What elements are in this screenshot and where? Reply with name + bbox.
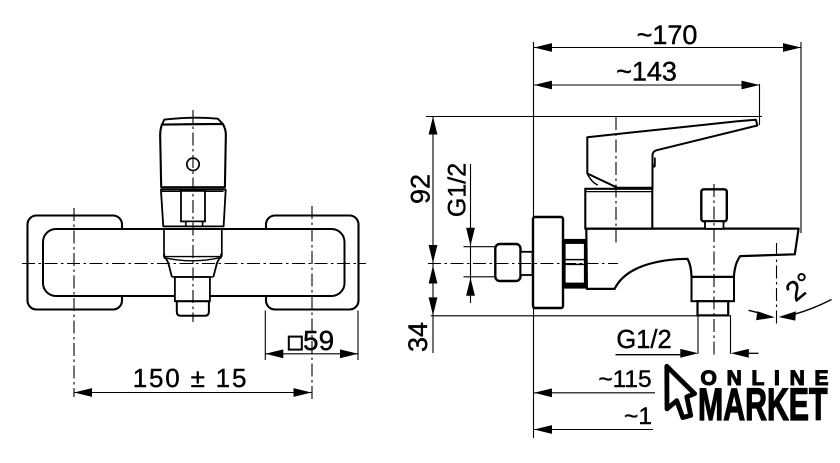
dimension extension □59 right bbox=[357, 311, 359, 361]
center line horizontal right view bbox=[428, 263, 618, 265]
svg-text:~1: ~1 bbox=[624, 403, 652, 430]
wall plate right bbox=[266, 216, 359, 310]
dimension ~170 bbox=[534, 47, 801, 49]
dimension ~115 bbox=[534, 392, 655, 394]
dimension 34 vertical bbox=[432, 264, 434, 354]
supply stub line bottom bbox=[464, 276, 496, 278]
svg-text:~170: ~170 bbox=[637, 20, 698, 50]
extension line wall vertical bbox=[533, 42, 535, 438]
center line right mount bbox=[311, 206, 313, 400]
hand-shower outlet tube bbox=[692, 277, 735, 301]
angle 2 degrees bbox=[749, 266, 832, 320]
connector neck bbox=[521, 252, 533, 275]
svg-text:G1/2: G1/2 bbox=[616, 326, 671, 354]
center line cartridge axis bbox=[615, 117, 617, 246]
dimension 92 vertical bbox=[432, 117, 434, 264]
backnut bbox=[564, 239, 586, 287]
diverter knob bbox=[701, 189, 727, 221]
svg-text:59: 59 bbox=[303, 325, 334, 356]
dimension ~143 bbox=[534, 84, 760, 86]
body bar bbox=[43, 229, 345, 296]
extension line handle top horizontal bbox=[426, 116, 762, 118]
wall flange bbox=[533, 217, 563, 308]
label □59 bbox=[289, 337, 302, 350]
outlet extension right bbox=[730, 316, 732, 354]
spout cone bbox=[164, 254, 221, 277]
outlet extension left bbox=[697, 316, 699, 354]
svg-text:~115: ~115 bbox=[598, 366, 651, 393]
center line diverter/outlet axis bbox=[713, 184, 715, 355]
center line 2 degree axis bbox=[776, 243, 778, 327]
svg-text:G1/2: G1/2 bbox=[444, 163, 472, 217]
valve column lines bbox=[163, 230, 165, 257]
svg-text:34: 34 bbox=[403, 322, 433, 352]
svg-text:~143: ~143 bbox=[616, 57, 677, 87]
dimension G1/2 supply bbox=[470, 164, 472, 303]
center line middle bbox=[192, 110, 194, 322]
cartridge neck foot bbox=[186, 221, 203, 226]
center line horizontal left view bbox=[22, 263, 366, 265]
spout cylinder bbox=[175, 277, 210, 301]
handle lip detail bbox=[653, 158, 655, 167]
extension line spout end bbox=[800, 42, 802, 233]
eccentric hex connector bbox=[495, 244, 520, 281]
cartridge collar side view bbox=[585, 189, 652, 229]
svg-text:150 ± 15: 150 ± 15 bbox=[133, 363, 248, 393]
dome arc under handle bbox=[588, 174, 598, 185]
cartridge collar bbox=[161, 190, 226, 227]
dimension line 150 ± 15 bbox=[74, 392, 312, 394]
extension line handle tip bbox=[759, 84, 761, 125]
lever handle bbox=[587, 120, 757, 188]
body and spout outline bbox=[586, 229, 798, 289]
aerator bbox=[177, 301, 209, 316]
outlet tip bbox=[698, 301, 729, 315]
svg-text:92: 92 bbox=[406, 174, 436, 204]
svg-text:MARKET: MARKET bbox=[698, 379, 828, 430]
handle knob bbox=[160, 118, 226, 188]
diverter stem bbox=[705, 221, 724, 229]
dimension line □59 bbox=[265, 353, 358, 355]
center line left mount bbox=[73, 208, 75, 397]
cartridge neck bbox=[181, 191, 205, 222]
extension line outlet bottom horizontal bbox=[431, 315, 731, 317]
supply stub line top bbox=[464, 246, 496, 248]
logo cursor arrow bbox=[667, 366, 695, 417]
knob set screw bbox=[187, 158, 199, 170]
dimension extension □59 left bbox=[264, 311, 266, 361]
dimension ~1 bbox=[534, 429, 653, 431]
wall plate left bbox=[28, 216, 123, 310]
